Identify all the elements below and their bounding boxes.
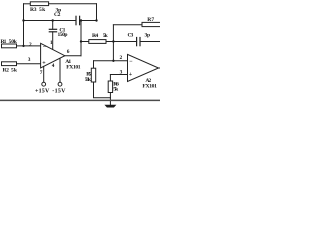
capacitor C2 xyxy=(75,16,77,24)
svg-text:1: 1 xyxy=(50,40,53,46)
svg-text:50k: 50k xyxy=(85,77,92,83)
wire C3 branch left segment xyxy=(113,41,136,43)
resistor R6 xyxy=(108,81,112,93)
svg-text:6: 6 xyxy=(67,49,70,55)
capacitor C1 xyxy=(49,28,56,30)
svg-text:5k: 5k xyxy=(103,33,109,39)
wire C3 branch right segment to edge xyxy=(140,41,160,43)
node junction R1 / feedback xyxy=(22,45,24,47)
node junction R3 vertical on C2 wire xyxy=(95,19,97,21)
wire R7 branch horizontal xyxy=(113,24,142,26)
svg-text:-15V: -15V xyxy=(52,88,66,94)
svg-text:50k: 50k xyxy=(9,39,18,45)
resistor R5 xyxy=(91,68,95,82)
svg-text:R1: R1 xyxy=(1,39,7,45)
wire A1 pin4 to -15V terminal xyxy=(59,59,61,83)
resistor R7 xyxy=(142,22,161,26)
wire top feedback R3 right segment xyxy=(49,3,97,5)
wire R4 right segment to node xyxy=(106,41,113,43)
wire R4 left segment xyxy=(81,41,89,43)
svg-text:3p: 3p xyxy=(145,32,151,38)
wire R5 top drop xyxy=(93,61,95,68)
node junction R4/C3/R7 cross xyxy=(112,40,114,42)
svg-text:R4: R4 xyxy=(92,33,98,39)
svg-text:R2: R2 xyxy=(3,67,10,73)
wire R6 top drop xyxy=(109,75,111,82)
terminal circle +15V xyxy=(42,82,46,86)
svg-text:+: + xyxy=(42,61,46,67)
svg-text:C3: C3 xyxy=(128,33,134,39)
svg-text:+: + xyxy=(129,72,133,78)
svg-text:2: 2 xyxy=(120,55,123,61)
svg-text:3: 3 xyxy=(120,70,123,76)
svg-text:7: 7 xyxy=(40,70,43,76)
resistor R1 xyxy=(2,44,17,48)
resistor R2 xyxy=(2,62,17,66)
wire A2 pin2 input xyxy=(94,60,128,62)
horizontal rule artifact bottom xyxy=(0,99,160,101)
svg-text:FX101: FX101 xyxy=(66,64,80,70)
svg-text:5k: 5k xyxy=(11,67,18,73)
wire C2 branch left segment xyxy=(24,20,77,22)
node junction R4 branch xyxy=(80,40,82,42)
resistor R3 xyxy=(30,2,48,6)
svg-text:C2: C2 xyxy=(54,12,61,18)
wire right vertical from R3 down to C2 node xyxy=(96,4,98,21)
svg-text:4: 4 xyxy=(52,63,55,69)
svg-text:R7: R7 xyxy=(147,17,154,23)
op-amp A2 triangle xyxy=(128,54,159,81)
svg-text:2: 2 xyxy=(29,42,32,48)
wire A2 pin3 input xyxy=(110,74,127,76)
svg-text:−: − xyxy=(129,59,133,65)
wire R5 bottom to ground rail xyxy=(94,82,111,98)
svg-text:3: 3 xyxy=(28,57,31,63)
svg-text:−: − xyxy=(43,45,47,51)
ground symbol xyxy=(104,105,116,108)
op-amp A1 triangle xyxy=(41,43,65,68)
capacitor C3 xyxy=(136,38,138,46)
svg-text:5k: 5k xyxy=(113,87,119,93)
wire pin1 compensation from C2 line down to C1 xyxy=(52,21,54,30)
terminal circle -15V xyxy=(58,82,62,86)
svg-text:R3: R3 xyxy=(30,7,37,13)
wire R2 to op-amp non-inverting input pin 3 xyxy=(17,63,41,65)
node junction pin1 on C2 wire xyxy=(52,19,54,21)
wire vertical node x=113.4 from R7 corner down to pin2 wire xyxy=(112,25,114,61)
wire R1 to op-amp inverting input pin 2 xyxy=(17,45,41,47)
wire A1 output pin 6 xyxy=(65,55,81,57)
node junction on pin2 wire xyxy=(112,60,114,62)
wire C1 down to op-amp A1 top edge pin 1 xyxy=(52,32,54,50)
wire C2 branch right segment xyxy=(80,20,97,22)
wire vertical x=81 output up to feedback node xyxy=(80,21,82,56)
node junction at left vertical / C2 wire xyxy=(22,19,24,21)
node junction output vertical on C2 wire xyxy=(80,19,82,21)
svg-text:5k: 5k xyxy=(39,7,46,13)
svg-text:+15V: +15V xyxy=(35,88,50,94)
svg-text:150p: 150p xyxy=(58,32,68,38)
wire A1 pin7 to +15V terminal xyxy=(43,66,45,82)
resistor R4 xyxy=(89,40,106,44)
wire A2 output to edge xyxy=(159,67,161,69)
wire top feedback R3 left segment xyxy=(24,3,31,5)
wire left vertical feedback x=23.5 xyxy=(23,4,25,46)
wire R6 bottom to ground xyxy=(109,93,111,105)
svg-text:FX101: FX101 xyxy=(142,84,157,90)
